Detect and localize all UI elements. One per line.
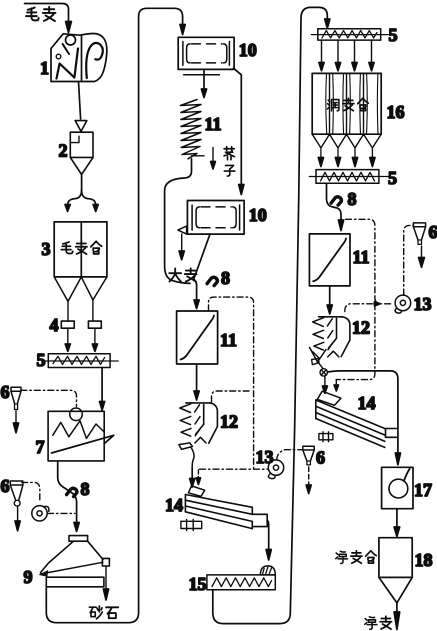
- screw conveyor 15: [207, 575, 275, 590]
- disc separator 11 (column 3): [309, 234, 350, 286]
- wire: destoner 9 return line up to sieve 10 (tall left riser): [46, 8, 182, 622]
- svg-text:1: 1: [40, 58, 49, 78]
- wire: inlet pipe to machine 1: [25, 4, 69, 22]
- aspiration duct: fan to destoner line: [48, 512, 76, 514]
- stones label 砂石: [89, 606, 118, 619]
- raw wheat bin 3 毛麦仓: [54, 222, 107, 277]
- aspiration riser to fan 13 (column 2): [209, 297, 254, 469]
- gravity stoner 14 (column 2): [181, 486, 267, 531]
- destoner 9: [39, 536, 110, 587]
- svg-text:10: 10: [239, 40, 257, 60]
- svg-text:13: 13: [256, 447, 274, 467]
- hopper 2: [70, 132, 93, 174]
- aspiration duct: cyclone 6 to separator 7: [21, 390, 77, 406]
- short line under sifter 10: [184, 74, 220, 76]
- wire: destoner stones outlet to 砂石: [105, 566, 107, 589]
- barley outlet wire + arrow: [181, 234, 183, 250]
- bypass wire: valve to magnetic machine 17: [327, 371, 398, 453]
- tempering bin 16 润麦仓: [312, 73, 381, 134]
- wires: conveyor 5 into tempering bin 16: [322, 40, 372, 63]
- wire: washer 12 to stoner 14 with arrows: [191, 468, 193, 479]
- svg-text:14: 14: [165, 495, 183, 515]
- duct: fan 13 to cyclone 6 (mid): [277, 450, 303, 460]
- wire: sifter 10 overs to sifter 10 lower: [233, 68, 241, 184]
- screw conveyor 5 (column 1): [43, 354, 119, 368]
- wire: hopper 2 splits into bin 3: [81, 175, 83, 192]
- svg-text:12: 12: [220, 412, 238, 432]
- svg-text:5: 5: [37, 350, 46, 370]
- fan 13 (column 3): [395, 295, 411, 313]
- magnetic separator 17: [382, 467, 413, 508]
- svg-text:7: 7: [36, 437, 45, 457]
- dashed air arrow into stoner 14: [197, 470, 199, 478]
- svg-text:18: 18: [415, 550, 433, 570]
- wire: beater 11 down-left detour to junction: [165, 159, 192, 284]
- wire: sifter 10 throughs to beater 11: [203, 69, 205, 88]
- svg-text:12: 12: [352, 318, 370, 338]
- feeders 4 (two slide gates): [61, 321, 74, 328]
- svg-text:16: 16: [387, 102, 405, 122]
- svg-text:6: 6: [429, 222, 437, 242]
- svg-text:13: 13: [414, 294, 432, 314]
- svg-text:6: 6: [1, 476, 10, 496]
- washer 12 (column 2): [179, 403, 218, 470]
- aspiration ducts column 3: [346, 219, 375, 297]
- svg-text:5: 5: [389, 25, 398, 45]
- svg-text:4: 4: [50, 315, 59, 335]
- bin 3 discharge hoppers: [54, 277, 107, 302]
- magnet 8 (column 1): [67, 488, 77, 496]
- raw wheat inlet label 毛麦: [26, 7, 55, 21]
- fan (column 1 blower): [32, 506, 49, 521]
- magnet 8 (column 3): [331, 197, 341, 205]
- duct: fan 13 up to cyclone 6 (top right): [404, 225, 413, 295]
- clean wheat outlet 净麦: [396, 603, 398, 613]
- svg-text:2: 2: [59, 141, 68, 161]
- cyclone 6 (middle bottom): [303, 446, 314, 465]
- magnet 8 (column 2): [207, 277, 217, 285]
- cyclone 6 (column 1 upper): [11, 387, 21, 409]
- wire: 17 to clean wheat bin 18: [396, 509, 398, 527]
- svg-text:11: 11: [205, 114, 222, 134]
- disc separator 11 (column 2): [177, 311, 218, 364]
- svg-text:9: 9: [24, 567, 33, 587]
- svg-text:8: 8: [81, 479, 90, 499]
- wire: conveyor 5 to separator 7: [101, 368, 103, 402]
- svg-text:10: 10: [249, 205, 267, 225]
- open arrow left on sifter 10 lower: [178, 226, 187, 234]
- svg-text:6: 6: [316, 448, 325, 468]
- plansifter 10 (upper): [178, 37, 234, 69]
- plansifter 10 (lower): [187, 201, 244, 235]
- wire: stoner 14 stones to conveyor 15: [267, 521, 269, 550]
- rotary valve under washer 12: [320, 369, 327, 376]
- machine 1 (intake separator) body: [51, 33, 107, 81]
- fan 13 (column 2): [268, 460, 283, 479]
- wire: conveyor 5 past magnet 8 to separator 11: [327, 183, 342, 219]
- svg-text:11: 11: [353, 247, 370, 267]
- wire: sifter 10 lower to disc separator 11: [194, 234, 210, 299]
- svg-text:5: 5: [388, 168, 397, 188]
- svg-text:6: 6: [1, 382, 10, 402]
- wire: separator 7 down past magnet 8 to destoner 9: [58, 461, 77, 523]
- wires: feeders to conveyor 5: [68, 328, 95, 344]
- inlet dome on conveyor 15: [260, 566, 275, 575]
- barley label 大麦: [169, 268, 196, 281]
- open arrow into hopper 2: [75, 121, 87, 132]
- cyclone 6 (top right): [413, 223, 425, 245]
- svg-text:8: 8: [221, 268, 230, 288]
- wire: valve to stoner 14 (column 3): [324, 376, 326, 385]
- buckwheat outlet arrow + 荞子: [212, 148, 214, 162]
- clean wheat bin 18 净麦仓: [379, 538, 412, 603]
- svg-text:3: 3: [42, 239, 51, 259]
- wire: separator 11 to washer 12 (column 3): [329, 286, 331, 305]
- vibrating separator 7: [48, 411, 114, 461]
- spiral beater 11 (zigzag): [181, 100, 202, 159]
- screw conveyor 5 (column 3 top): [311, 29, 388, 40]
- svg-text:8: 8: [348, 189, 357, 209]
- bin 16 discharge hoppers: [312, 134, 381, 148]
- gravity stoner 14 (column 3): [316, 391, 398, 447]
- svg-text:15: 15: [189, 574, 207, 594]
- wire: conveyor 15 return line up to conveyor 5 (tall right riser): [213, 7, 327, 623]
- cyclone 6 (column 1 lower): [10, 481, 23, 506]
- washer 12 (column 3): [310, 317, 350, 368]
- screw conveyor 5 (column 3 second): [309, 170, 388, 184]
- svg-text:17: 17: [414, 480, 432, 500]
- svg-text:11: 11: [220, 330, 237, 350]
- suction hood circle on separator 7: [70, 408, 83, 421]
- aspiration duct: cyclone to fan (column 1): [22, 482, 40, 501]
- wire: separator 11 to washer 12: [196, 364, 198, 391]
- aspiration duct: washer 12 top to riser: [212, 391, 250, 402]
- wire: machine 1 to hopper 2: [79, 82, 81, 120]
- svg-text:14: 14: [358, 393, 376, 413]
